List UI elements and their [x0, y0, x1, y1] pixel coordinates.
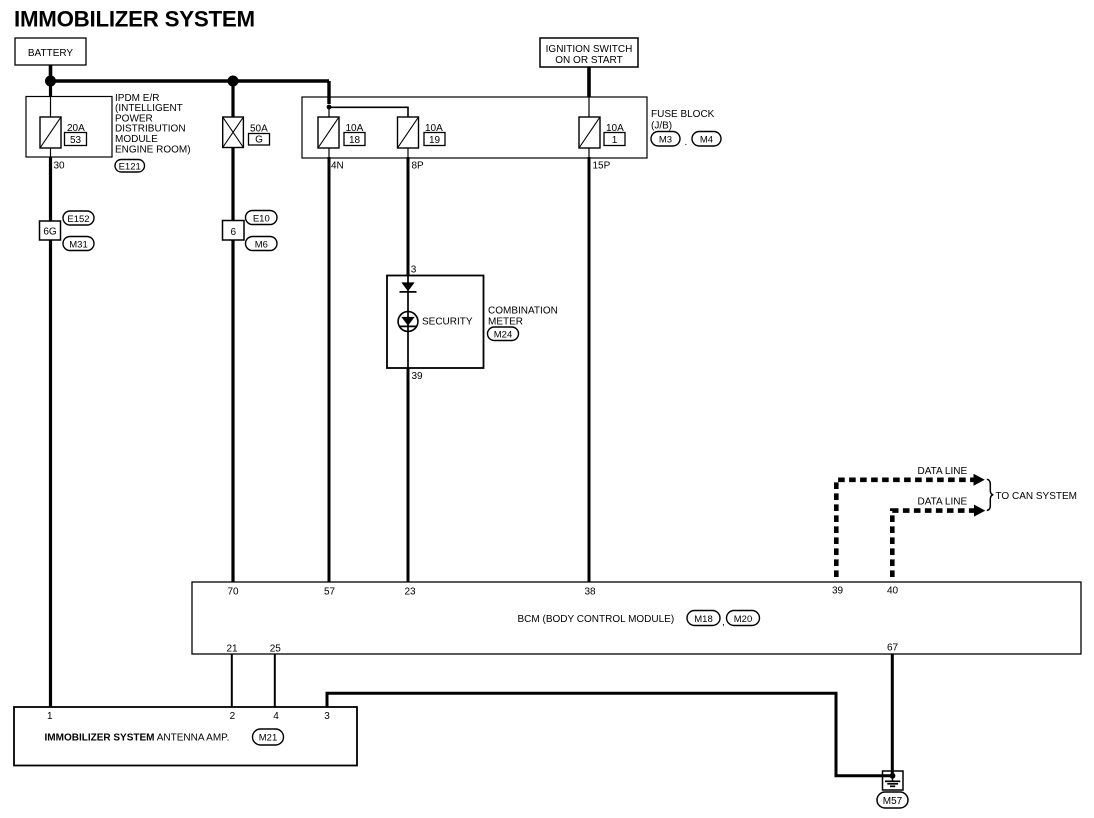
wire battery to bus [49, 65, 53, 81]
svg-text:3: 3 [411, 265, 417, 276]
wire 15P to BCM pin 38 [588, 157, 591, 582]
svg-text:18: 18 [349, 135, 361, 146]
svg-text:COMBINATION: COMBINATION [488, 305, 558, 316]
wire fuse 19 feed [329, 107, 408, 117]
svg-text:M6: M6 [255, 239, 268, 250]
wire fusible link to BCM pin 70 [231, 148, 234, 583]
wire BCM pin 25 to antenna amp pin 4 [274, 654, 276, 707]
svg-text:1: 1 [47, 711, 53, 722]
svg-text:M3: M3 [659, 135, 672, 146]
svg-text:DATA LINE: DATA LINE [918, 466, 968, 477]
svg-text:IMMOBILIZER SYSTEM: IMMOBILIZER SYSTEM [14, 7, 255, 32]
connector oval M57 [877, 792, 908, 808]
svg-text:,: , [722, 617, 725, 628]
fuse number box 53 [65, 133, 87, 147]
diode D1 [400, 282, 417, 292]
svg-text:IGNITION SWITCH: IGNITION SWITCH [546, 44, 633, 55]
svg-text:50A: 50A [250, 123, 268, 134]
connector oval M4 [692, 132, 721, 147]
wire ignition switch to fuse block [587, 67, 591, 97]
data line upper dashed [836, 480, 974, 577]
fuse 10A (18) [318, 117, 339, 148]
svg-text:M57: M57 [883, 796, 903, 807]
svg-text:53: 53 [70, 135, 82, 146]
fuse 20A (53) [40, 117, 61, 148]
svg-text:30: 30 [54, 161, 66, 172]
wire fuse 18 feed [328, 107, 330, 117]
svg-text:M24: M24 [494, 330, 512, 341]
svg-text:15P: 15P [593, 161, 611, 172]
ground M57 [883, 771, 904, 790]
ignition switch box [540, 38, 638, 67]
immobilizer antenna amp box [14, 707, 357, 766]
connector oval E10 [246, 211, 278, 225]
wire 8P to combination meter pin 3 [407, 157, 410, 276]
connector 6 box [223, 221, 245, 241]
svg-text:39: 39 [832, 585, 844, 596]
wire fuse 18 to pin 4N [328, 148, 330, 157]
connector oval M6 [246, 237, 278, 251]
wire inside fuse block to fuse 1 [588, 97, 590, 117]
svg-text:M4: M4 [700, 135, 713, 146]
connector oval M18 [687, 611, 720, 626]
svg-text:4N: 4N [331, 161, 344, 172]
wire antenna amp pin 3 to ground [327, 693, 890, 776]
battery B1 [15, 38, 86, 65]
fuse number box 1 [604, 133, 625, 147]
svg-text:6: 6 [231, 227, 237, 238]
wire fusible link branch vertical [231, 81, 234, 117]
svg-text:(J/B): (J/B) [651, 120, 672, 131]
svg-text:1: 1 [612, 135, 618, 146]
label COMBINATION METER [488, 305, 558, 327]
connector oval E121 [115, 160, 145, 173]
svg-text:E152: E152 [67, 214, 89, 225]
svg-text:M21: M21 [259, 733, 277, 744]
svg-text:IMMOBILIZER SYSTEM ANTENNA AMP: IMMOBILIZER SYSTEM ANTENNA AMP. [45, 733, 230, 744]
svg-text:BCM (BODY CONTROL MODULE): BCM (BODY CONTROL MODULE) [518, 614, 675, 625]
data line lower dashed [892, 511, 975, 577]
wire bus drop to fuse block [327, 81, 330, 104]
combination meter box [387, 276, 484, 369]
wire BCM pin 67 to ground [891, 654, 894, 776]
svg-text:SECURITY: SECURITY [422, 317, 473, 328]
wire inside IPDM to fuse [50, 97, 52, 118]
connector oval M24 [488, 327, 519, 341]
svg-text:23: 23 [404, 587, 416, 598]
svg-text:TO CAN SYSTEM: TO CAN SYSTEM [996, 491, 1078, 502]
svg-text:E10: E10 [253, 213, 270, 224]
svg-text:ON OR START: ON OR START [555, 55, 622, 66]
wire fuse 1 to pin 15P [588, 148, 590, 157]
svg-text:2: 2 [230, 711, 236, 722]
wire power bus [51, 79, 330, 82]
svg-text:DATA LINE: DATA LINE [918, 496, 968, 507]
wire battery branch vertical [49, 81, 52, 97]
fuse block J/B box [302, 97, 647, 158]
junction battery bus [45, 76, 56, 87]
IPDM E/R box [26, 97, 112, 158]
svg-text:M31: M31 [69, 239, 87, 250]
connector oval M20 [727, 611, 760, 626]
svg-text:FUSE BLOCK: FUSE BLOCK [651, 109, 715, 120]
svg-text:G: G [255, 135, 263, 146]
fuse number box G [249, 134, 270, 146]
connector oval M3 [651, 132, 680, 147]
junction fuse block feed [327, 105, 332, 110]
connector oval M31 [63, 237, 94, 251]
svg-text:6G: 6G [43, 227, 57, 238]
fuse number box 18 [344, 133, 365, 147]
svg-text:8P: 8P [412, 161, 425, 172]
svg-text:ENGINE ROOM): ENGINE ROOM) [115, 144, 191, 155]
wire meter pin 39 to BCM pin 23 [407, 368, 410, 582]
svg-text:M20: M20 [734, 614, 752, 625]
arrowhead data line lower [974, 505, 985, 517]
connector 6G box [40, 221, 61, 240]
svg-text:39: 39 [412, 371, 424, 382]
svg-text:70: 70 [227, 587, 239, 598]
wire BCM pin 21 to antenna amp pin 2 [231, 654, 233, 707]
fuse 10A (1) [579, 117, 600, 148]
svg-text:BATTERY: BATTERY [28, 48, 74, 59]
svg-text:E121: E121 [119, 162, 141, 173]
svg-text:.: . [685, 137, 688, 148]
label IPDM E/R text block [115, 93, 191, 156]
svg-text:57: 57 [324, 587, 336, 598]
svg-text:67: 67 [887, 643, 899, 654]
svg-text:M18: M18 [694, 614, 712, 625]
svg-text:40: 40 [887, 585, 899, 596]
label FUSE BLOCK (J/B) [651, 109, 715, 132]
svg-text:3: 3 [324, 711, 330, 722]
svg-text:21: 21 [226, 644, 238, 655]
svg-text:METER: METER [488, 316, 523, 327]
BCM body control module box [192, 582, 1081, 654]
wire IPDM pin30 down to antenna amp pin 1 [49, 157, 52, 707]
arrowhead data line upper [974, 474, 985, 486]
connector oval E152 [63, 211, 94, 225]
junction fusible link branch [228, 76, 239, 87]
wire IPDM fuse to pin 30 [50, 148, 52, 157]
wire 4N to BCM pin 57 [328, 157, 331, 582]
fuse number box 19 [424, 133, 445, 147]
wire fuse 19 to pin 8P [407, 148, 409, 157]
svg-text:38: 38 [584, 587, 596, 598]
svg-text:4: 4 [273, 711, 279, 722]
svg-text:19: 19 [429, 135, 441, 146]
svg-text:25: 25 [270, 644, 282, 655]
brace to CAN system [987, 479, 994, 510]
connector oval M21 [253, 729, 284, 745]
fuse 10A (19) [398, 117, 419, 148]
wire inside meter [407, 276, 409, 369]
fusible link 50A (G) [223, 117, 244, 148]
security indicator LED [398, 312, 418, 332]
